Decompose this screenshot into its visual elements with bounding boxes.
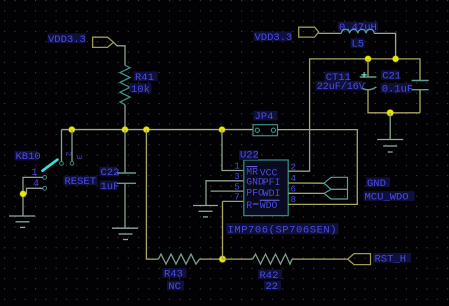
svg-text:C21: C21 bbox=[382, 71, 401, 83]
svg-text:RST_H: RST_H bbox=[375, 253, 407, 265]
capacitor C22 bbox=[100, 167, 137, 193]
inductor L5 bbox=[338, 22, 378, 51]
svg-text:VDD3.3: VDD3.3 bbox=[255, 32, 293, 44]
svg-text:3: 3 bbox=[74, 155, 82, 160]
svg-text:R43: R43 bbox=[164, 269, 183, 281]
wire VCC top rail bbox=[310, 59, 420, 130]
wire R43 to node bbox=[199, 258, 222, 260]
wire C22 to gnd bbox=[124, 183, 126, 228]
svg-text:MCU_WDO: MCU_WDO bbox=[365, 192, 409, 204]
port RST_H bbox=[348, 253, 411, 265]
wire node to gnd bbox=[389, 113, 391, 140]
svg-text:L5: L5 bbox=[352, 39, 365, 51]
wire KB10 pin2 drop bbox=[61, 130, 63, 162]
node junction bottom-gnd bbox=[387, 110, 393, 116]
wire JP4 to VCC rail cross bbox=[278, 129, 310, 131]
power port VDD3.3 (top-left) bbox=[48, 34, 114, 48]
node junction bus-R41-C22 bbox=[122, 127, 128, 133]
label IMP706(SP706SEN) bbox=[226, 223, 338, 236]
wire pin3 to gnd bbox=[206, 181, 244, 206]
svg-text:PFO: PFO bbox=[246, 187, 264, 198]
capacitor CT11 (polarized) bbox=[316, 72, 377, 94]
wire KB10 pin3 drop bbox=[71, 130, 73, 162]
wire KB10 pin4 jog bbox=[23, 188, 43, 194]
svg-text:0.1uF: 0.1uF bbox=[382, 83, 414, 95]
wire pin2 to VCC cross bbox=[288, 130, 309, 172]
svg-text:WDO: WDO bbox=[260, 200, 278, 211]
svg-text:7: 7 bbox=[234, 192, 240, 203]
svg-text:8: 8 bbox=[291, 194, 297, 205]
svg-text:PFI: PFI bbox=[263, 177, 281, 188]
wire R42 to RST_H bbox=[292, 258, 348, 260]
jumper JP4 bbox=[253, 111, 278, 136]
svg-text:RESET: RESET bbox=[65, 176, 97, 188]
svg-text:22: 22 bbox=[266, 281, 279, 293]
port tag MCU_WDO bbox=[324, 189, 348, 199]
svg-text:6: 6 bbox=[291, 183, 297, 194]
node junction bus-KB10 bbox=[69, 127, 75, 133]
wire L5 to rail bbox=[374, 33, 395, 59]
label GND bbox=[366, 178, 390, 190]
ground (filter) bbox=[377, 140, 403, 153]
wire CT11 to bottom rail bbox=[368, 90, 420, 113]
svg-text:C22: C22 bbox=[101, 167, 120, 179]
wire VDD3.3 to R41 bbox=[114, 42, 126, 65]
node junction R43-R42-pin7 bbox=[219, 256, 225, 262]
svg-text:NC: NC bbox=[168, 281, 181, 293]
switch KB10 bbox=[15, 151, 83, 190]
wire C21 to bottom rail bbox=[419, 90, 421, 113]
wire pin7 drop to R-node bbox=[222, 201, 224, 259]
svg-text:10k: 10k bbox=[131, 84, 150, 96]
wire bus to C22 bbox=[124, 130, 126, 173]
svg-text:R: R bbox=[246, 200, 252, 211]
wire pin4 to GND tag bbox=[288, 182, 324, 184]
wire pin7 stub bbox=[223, 200, 244, 202]
node junction rail-L5 bbox=[393, 56, 399, 62]
resistor R41 bbox=[120, 65, 158, 105]
wire main bus bbox=[62, 129, 254, 131]
node junction rail-CT11 bbox=[365, 56, 371, 62]
node junction KB10 bbox=[20, 191, 26, 197]
wire rail to CT11 bbox=[367, 59, 369, 77]
port tag GND bbox=[324, 177, 348, 189]
label MCU_WDO bbox=[364, 191, 415, 203]
power port VDD3.3 (top-right) bbox=[254, 27, 319, 44]
svg-text:WDI: WDI bbox=[263, 188, 281, 199]
svg-text:GND: GND bbox=[367, 178, 386, 190]
svg-text:U22: U22 bbox=[240, 150, 259, 162]
wire KB10 pin1 to gnd bbox=[23, 177, 43, 215]
IC U22 (IMP706/SP706SEN supervisor) bbox=[234, 150, 296, 216]
ground (pin3) bbox=[193, 206, 218, 217]
svg-text:GND: GND bbox=[246, 177, 264, 188]
ground (C22) bbox=[112, 228, 138, 239]
node junction bus-pin1 bbox=[219, 127, 225, 133]
svg-text:R41: R41 bbox=[135, 72, 154, 84]
svg-text:22uF/16V: 22uF/16V bbox=[317, 81, 365, 93]
resistor R43 bbox=[158, 254, 199, 293]
ground (KB10) bbox=[9, 216, 35, 227]
svg-text:JP4: JP4 bbox=[255, 111, 274, 123]
resistor R42 bbox=[253, 254, 292, 293]
wire R41 to bus bbox=[124, 105, 126, 130]
svg-text:2: 2 bbox=[64, 152, 72, 157]
svg-text:VDD3.3: VDD3.3 bbox=[48, 34, 86, 46]
node junction bus-R43 bbox=[143, 127, 149, 133]
svg-text:IMP706(SP706SEN): IMP706(SP706SEN) bbox=[228, 225, 338, 237]
label RESET bbox=[64, 176, 98, 188]
svg-text:KB10: KB10 bbox=[16, 151, 41, 163]
capacitor C21 bbox=[381, 70, 429, 95]
wire pin5 stub bbox=[211, 190, 244, 192]
wire VCC cross to pin8 (olive path) bbox=[288, 130, 357, 205]
wire node to R42 bbox=[223, 258, 253, 260]
wire VDD3.3 to L5 bbox=[319, 32, 342, 34]
wire bus down to R43 bbox=[146, 130, 158, 260]
wire pin6 to MCU_WDO tag bbox=[288, 192, 324, 194]
wire pin1 to bus bbox=[222, 130, 244, 171]
svg-text:1uF: 1uF bbox=[101, 181, 120, 193]
